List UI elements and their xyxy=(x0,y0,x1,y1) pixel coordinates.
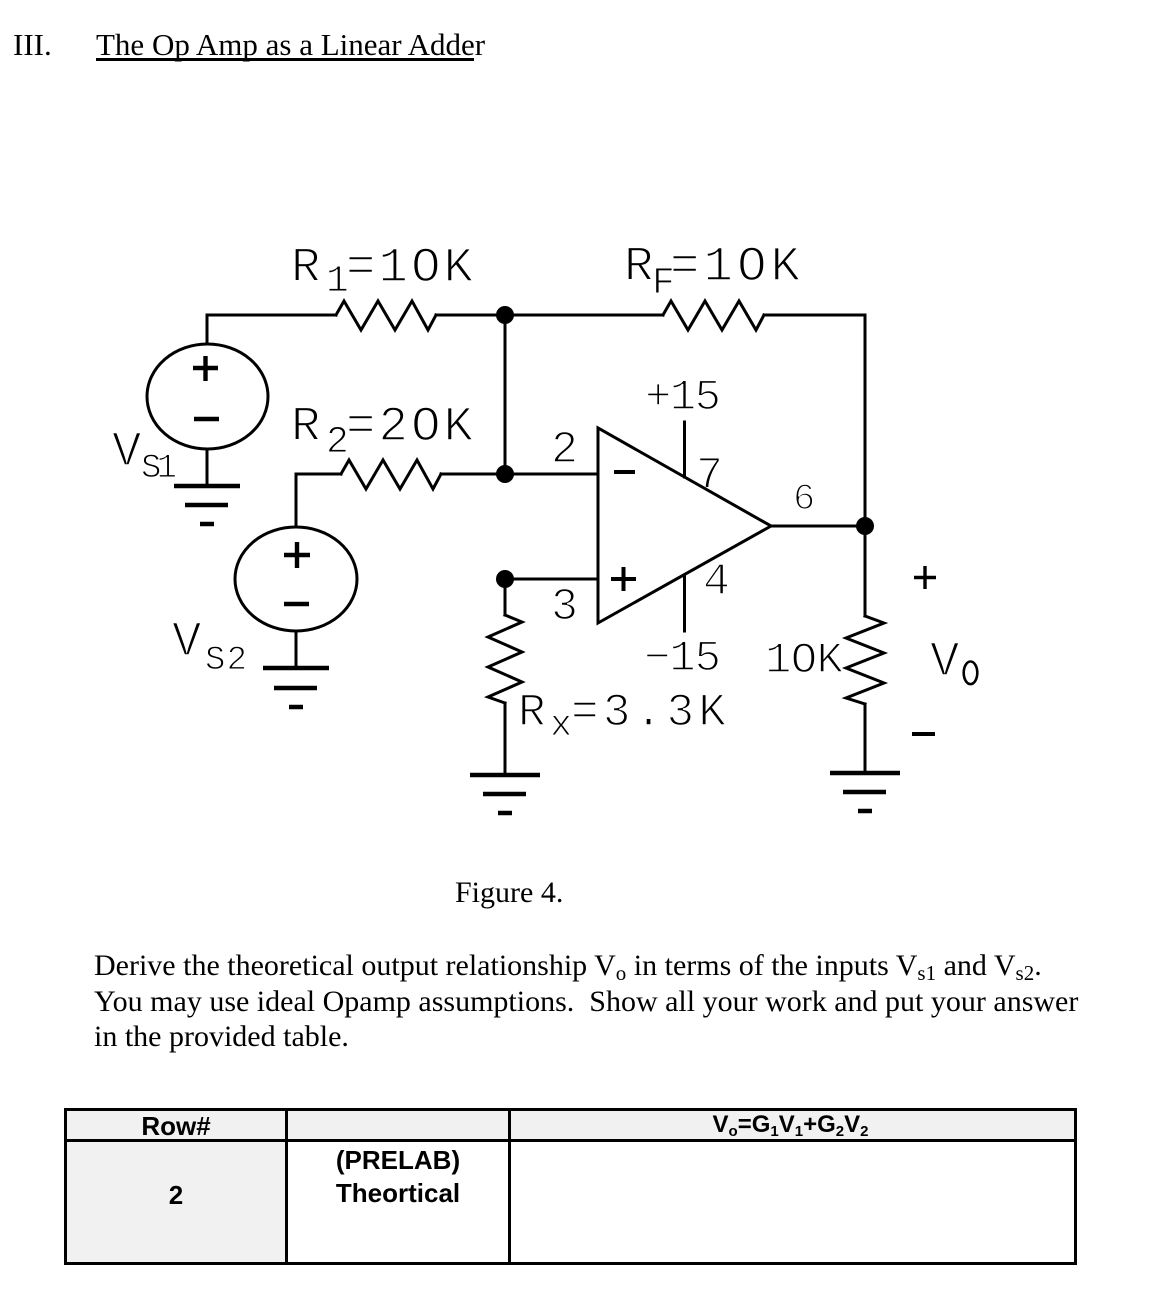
svg-text:=1OK: =1OK xyxy=(346,240,474,296)
svg-text:V: V xyxy=(930,634,960,690)
resistor RX xyxy=(488,615,522,703)
svg-text:=1OK: =1OK xyxy=(670,239,801,295)
vertical divider 2 xyxy=(508,1111,511,1262)
label RX=3.3K xyxy=(518,687,726,747)
label Vo xyxy=(930,634,977,690)
label RF=10K xyxy=(624,239,801,305)
VS1 plus sign xyxy=(193,356,218,381)
wire Rx to ground xyxy=(504,703,507,773)
node junction pin 3 xyxy=(496,570,514,588)
Figure caption xyxy=(455,876,563,910)
VS2 minus sign xyxy=(284,602,309,606)
voltage source VS1 xyxy=(147,344,268,449)
voltage source VS2 xyxy=(235,527,357,631)
op-amp non-inverting input plus sign xyxy=(611,567,636,591)
wire node3 down to Rx xyxy=(504,579,507,615)
svg-text:S2: S2 xyxy=(205,642,247,680)
label R1=10K xyxy=(291,240,474,303)
svg-text:4: 4 xyxy=(703,557,730,608)
wire VS1 to ground xyxy=(206,449,209,486)
wire RL to ground xyxy=(864,704,867,773)
svg-text:2: 2 xyxy=(551,425,578,476)
resistor R1 xyxy=(336,301,436,330)
Vo minus sign xyxy=(912,732,935,736)
label VS1 xyxy=(112,424,177,488)
wire op-amp output to node 6 xyxy=(771,525,865,528)
ground below VS1 xyxy=(174,486,240,524)
node junction R1/RF/pin2 rail xyxy=(496,306,514,324)
label R2=20K xyxy=(291,399,474,464)
resistor R2 xyxy=(341,460,441,489)
wire R2 row from VS2 corner xyxy=(296,474,341,527)
op-amp U1 xyxy=(598,428,771,623)
wire top rail from VS1 corner to R1 xyxy=(207,315,336,344)
VS2 plus sign xyxy=(284,542,310,568)
svg-text:R: R xyxy=(291,399,320,455)
vertical divider 1 xyxy=(285,1111,288,1262)
svg-text:R: R xyxy=(624,239,653,295)
Vo plus sign xyxy=(914,566,936,589)
wire R1 to node and feedback top rail xyxy=(436,314,663,317)
svg-text:V: V xyxy=(112,424,142,480)
wire RF right end down right rail xyxy=(764,315,865,526)
svg-text:=2OK: =2OK xyxy=(346,399,474,455)
wire +15 supply stub pin 7 xyxy=(683,422,686,477)
svg-text:6: 6 xyxy=(793,479,815,521)
paragraph xyxy=(94,948,1078,1055)
svg-text:R: R xyxy=(291,240,320,296)
cell text xyxy=(67,1113,285,1139)
svg-text:1OK: 1OK xyxy=(765,636,844,686)
wire VS2 to ground xyxy=(295,631,298,668)
wire R2 to node 2 and op-amp inverting input xyxy=(441,473,598,476)
svg-text:+15: +15 xyxy=(645,373,721,423)
wire -15 supply stub pin 4 xyxy=(683,575,686,631)
header row xyxy=(67,1111,1074,1142)
svg-text:S1: S1 xyxy=(141,450,177,488)
svg-text:x: x xyxy=(550,705,572,747)
node junction 6 output xyxy=(856,517,874,535)
op-amp inverting input minus sign xyxy=(614,470,635,474)
svg-text:−15: −15 xyxy=(644,634,721,684)
ground below RX xyxy=(470,775,540,813)
wire node 3 to op-amp non-inverting input xyxy=(505,578,598,581)
svg-text:V: V xyxy=(172,614,202,670)
wire node6 down to RL xyxy=(864,526,867,616)
node junction pin 2 xyxy=(496,465,514,483)
svg-text:R: R xyxy=(518,687,546,739)
wire node2 vertical drop xyxy=(504,315,507,474)
label VS2 xyxy=(172,614,247,680)
col1 gray body xyxy=(67,1142,285,1262)
svg-text:=3.3K: =3.3K xyxy=(571,687,726,739)
VS1 minus sign xyxy=(194,417,219,421)
resistor RL 10K xyxy=(846,616,884,704)
resistor RF xyxy=(663,301,764,330)
ground below VS2 xyxy=(263,668,329,707)
Title xyxy=(13,27,52,63)
svg-text:3: 3 xyxy=(551,582,578,633)
ground below RL xyxy=(830,773,900,811)
svg-text:7: 7 xyxy=(696,451,723,502)
table xyxy=(64,1108,1077,1265)
